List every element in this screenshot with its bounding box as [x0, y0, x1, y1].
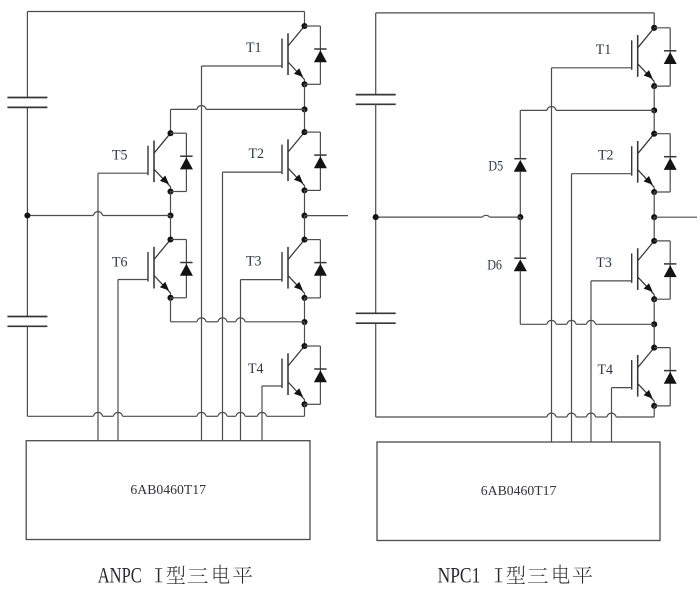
wire: T2 emitter to output node: [304, 190, 306, 215]
svg-text:T4: T4: [598, 362, 614, 378]
svg-text:T1: T1: [596, 42, 612, 58]
wire: right rail lower segment: [375, 323, 377, 417]
wire: left output stub: [305, 215, 349, 217]
label T6: [112, 255, 128, 271]
driver box U2 (right): [377, 442, 660, 541]
label T2 (right): [598, 147, 614, 163]
svg-text:T2: T2: [598, 147, 614, 163]
node: left neutral node: [167, 212, 173, 218]
wire: left neutral rail: [27, 212, 170, 216]
wire: left DC- bus: [27, 412, 304, 416]
wire: D6 anode to T3-T4 junction: [520, 320, 654, 324]
antiparallel diode of T2: [305, 132, 327, 190]
caption: ANPC I-type three-level: [98, 562, 252, 587]
wire: T5 emitter to neutral node: [170, 192, 172, 216]
label T4: [248, 361, 264, 377]
svg-text:T5: T5: [112, 148, 128, 164]
driver box U1 (left): [26, 441, 310, 540]
wire: T3 emitter to junction: [304, 298, 306, 322]
svg-text:D5: D5: [488, 158, 503, 174]
svg-text:T3: T3: [596, 255, 612, 271]
wire: left rail lower segment: [26, 326, 28, 416]
wire: T3 gate line (right): [590, 281, 592, 442]
svg-text:T6: T6: [112, 255, 128, 271]
wire: T5 gate line: [97, 173, 99, 441]
wire: T6 emitter to T3-T4 junction: [171, 318, 305, 322]
wire: T2 gate line (right): [571, 174, 573, 442]
node: T3-T4 junction: [301, 319, 307, 325]
antiparallel diode of T5: [171, 133, 193, 191]
wire: T6 gate line: [117, 280, 119, 441]
wire: T1 emitter to junction: [304, 84, 306, 109]
wire: T1 gate line (right): [551, 68, 553, 442]
wire: neutral node to D6 cathode: [519, 217, 521, 258]
wire: right rail upper segment: [375, 13, 377, 95]
svg-text:6AB0460T17: 6AB0460T17: [130, 483, 206, 498]
svg-text:D6: D6: [487, 258, 502, 274]
wire: output node to T3 collector: [304, 216, 306, 240]
wire: T2 gate line: [222, 172, 224, 441]
wire: T4 gate line: [261, 386, 263, 441]
wire: T1 emitter to junction (right): [653, 86, 655, 110]
transistor T1 (IGBT) right circuit: [552, 25, 658, 89]
transistor T6 (IGBT) left circuit: [118, 236, 174, 300]
antiparallel diode of T1: [305, 26, 327, 84]
capacitor C3: [356, 95, 396, 105]
wire: T3 emitter to junction (right): [653, 299, 655, 324]
label T5: [112, 148, 128, 164]
wire: T4 emitter to DC- bus: [304, 404, 306, 416]
wire: right DC- bus: [376, 413, 655, 417]
transistor T4 (IGBT) right circuit: [612, 345, 658, 409]
label D6: [487, 258, 502, 274]
wire: D6 anode down: [519, 271, 521, 324]
caption: NPC1 I-type three-level: [438, 562, 592, 587]
wire: T1-T2 junction to T5 branch: [171, 106, 305, 110]
antiparallel diode of T3: [654, 241, 677, 299]
antiparallel diode of T3: [305, 240, 327, 298]
wire: T1 gate line: [201, 66, 203, 441]
node: T1-T2 junction: [301, 106, 307, 112]
wire: junction to T2 collector: [304, 109, 306, 132]
capacitor C2: [7, 317, 47, 327]
wire: junction to T2 collector (right): [653, 110, 655, 133]
wire: junction to T4 collector (right): [653, 324, 655, 347]
node: T3-T4 junction (right): [651, 321, 657, 327]
antiparallel diode of T6: [171, 240, 193, 298]
antiparallel diode of T4: [654, 348, 677, 406]
wire: right rail between capacitors: [375, 104, 377, 313]
svg-text:T4: T4: [248, 361, 264, 377]
wire: neutral node to T6 collector: [170, 216, 172, 240]
svg-text:NPC1: NPC1: [438, 562, 481, 587]
wire: right output stub: [654, 216, 697, 218]
wire: T2 emitter to output node (right): [653, 192, 655, 217]
transistor T5 (IGBT) left circuit: [98, 130, 174, 194]
wire: D5 anode to neutral node: [519, 172, 521, 217]
diode D5: [514, 159, 527, 172]
node: right output node: [651, 214, 657, 220]
wire: T3 gate line: [240, 280, 242, 441]
transistor T4 (IGBT) left circuit: [262, 343, 308, 407]
svg-text:T2: T2: [249, 146, 265, 162]
label D5: [488, 158, 503, 174]
label T3 (right): [596, 255, 612, 271]
transistor T2 (IGBT) left circuit: [223, 129, 308, 193]
label T1: [246, 40, 262, 56]
label T1 (right): [596, 42, 612, 58]
capacitor C4: [356, 313, 396, 323]
wire: T4 gate line (right): [611, 388, 613, 442]
wire: left DC+ top rail: [27, 12, 304, 27]
wire: T6 emitter down: [170, 298, 172, 322]
wire: junction to T4 collector: [304, 322, 306, 346]
node: right neutral node: [517, 214, 523, 220]
label 6AB0460T17 (left): [130, 483, 206, 498]
node: T1-T2 junction (right): [651, 107, 657, 113]
transistor T2 (IGBT) right circuit: [572, 131, 658, 195]
wire: left DC bus upper segment: [26, 12, 28, 98]
svg-text:T3: T3: [246, 254, 262, 270]
wire: T4 emitter to DC- bus (right): [653, 406, 655, 417]
svg-text:6AB0460T17: 6AB0460T17: [481, 484, 557, 499]
wire: left rail between capacitors: [26, 107, 28, 316]
wire: right DC+ top rail: [376, 13, 655, 28]
capacitor C1: [7, 98, 47, 108]
label T3: [246, 254, 262, 270]
antiparallel diode of T2: [654, 134, 677, 192]
antiparallel diode of T4: [305, 346, 327, 404]
svg-text:T1: T1: [246, 40, 262, 56]
node: right capacitor midpoint: [373, 214, 379, 220]
label T2: [249, 146, 265, 162]
node: left output node: [301, 213, 307, 219]
svg-text:ANPC: ANPC: [98, 562, 142, 587]
node: left capacitor midpoint: [24, 212, 30, 218]
transistor T3 (IGBT) right circuit: [591, 238, 657, 302]
transistor T1 (IGBT) left circuit: [202, 23, 308, 87]
diode D6: [514, 258, 527, 271]
wire: clamp branch upper lead: [519, 110, 521, 158]
transistor T3 (IGBT) left circuit: [241, 237, 308, 301]
antiparallel diode of T1: [654, 28, 677, 86]
label T4 (right): [598, 362, 614, 378]
wire: output node to T3 collector (right): [653, 217, 655, 241]
wire: right neutral rail: [376, 215, 521, 217]
label 6AB0460T17 (right): [481, 484, 557, 499]
wire: T1-T2 junction to clamp branch: [520, 107, 654, 111]
wire: down to T5 collector: [170, 109, 172, 133]
